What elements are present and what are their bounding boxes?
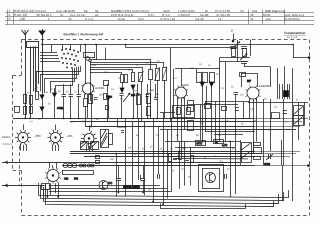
svg-text:01.09.20.01: 01.09.20.01	[284, 17, 300, 21]
svg-text:1M: 1M	[240, 94, 243, 97]
svg-text:Wellen: Wellen	[2, 135, 11, 139]
svg-text:44: 44	[250, 17, 254, 21]
svg-text:NTC: NTC	[196, 141, 202, 145]
svg-text:FM: FM	[74, 176, 79, 180]
svg-text:fu 4a: fu 4a	[118, 17, 125, 21]
svg-text:ECH81: ECH81	[96, 86, 105, 90]
svg-text:m.s. 44 t.w.: m.s. 44 t.w.	[70, 13, 85, 17]
svg-text:4.a 40: 4.a 40	[195, 17, 204, 21]
svg-text:5c: 5c	[60, 13, 64, 17]
svg-text:a.f.: a.f.	[95, 13, 99, 17]
svg-text:zu 2 u 4: zu 2 u 4	[287, 35, 297, 39]
svg-text:RF: RF	[247, 79, 251, 83]
svg-text:43: 43	[68, 17, 72, 21]
svg-text:OC: OC	[108, 181, 112, 185]
svg-text:EF89: EF89	[182, 83, 189, 87]
svg-text:3.: 3.	[9, 17, 12, 21]
svg-text:50n: 50n	[99, 93, 104, 96]
svg-text:H.4. u.: H.4. u.	[85, 17, 94, 21]
svg-text:→805: →805	[65, 134, 73, 138]
svg-text:EABC80: EABC80	[259, 84, 270, 88]
svg-text:100: 100	[190, 67, 195, 70]
svg-text:6k8: 6k8	[150, 89, 155, 92]
svg-text:100: 100	[20, 17, 25, 21]
svg-text:rm: rm	[240, 9, 244, 13]
svg-text:tt 44: tt 44	[148, 13, 154, 17]
svg-text:a.w.: a.w.	[266, 17, 272, 21]
svg-text:t.4: t.4	[218, 17, 222, 21]
svg-text:→800: →800	[33, 134, 41, 138]
svg-text:1M: 1M	[131, 93, 136, 97]
svg-text:220: 220	[110, 158, 115, 161]
svg-text:T a M: T a M	[51, 141, 58, 145]
svg-text:LS: LS	[274, 106, 277, 109]
svg-text:4700: 4700	[264, 162, 270, 166]
svg-text:m 41,5 (.w): m 41,5 (.w)	[160, 17, 175, 21]
svg-text:5k6: 5k6	[182, 148, 187, 151]
svg-text:AM: AM	[64, 176, 69, 180]
svg-text:Bandfilter 1 Abstimmung AM: Bandfilter 1 Abstimmung AM	[64, 32, 104, 36]
svg-text:t! 4M (m): t! 4M (m)	[178, 13, 190, 17]
svg-text:m.m.: m.m.	[138, 17, 145, 21]
svg-text:P: P	[231, 29, 233, 33]
svg-text:4,7k: 4,7k	[222, 143, 228, 147]
svg-text:4k7: 4k7	[128, 68, 133, 71]
svg-text:K M L U: K M L U	[3, 142, 12, 146]
